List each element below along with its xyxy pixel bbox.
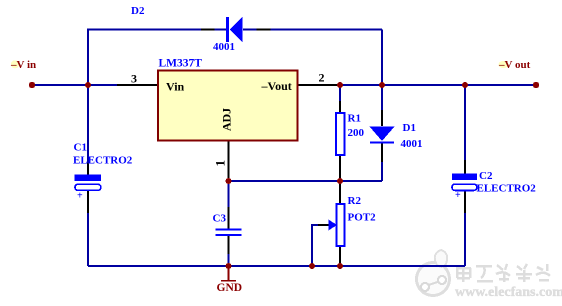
svg-text:POT2: POT2 [348, 212, 377, 224]
wire C2 branch [464, 85, 466, 266]
watermark chinese text strokes [456, 264, 550, 282]
wire left vertical [87, 29, 89, 164]
junction at R2 bottom [337, 263, 343, 269]
svg-text:1: 1 [212, 160, 227, 167]
svg-text:R1: R1 [348, 113, 361, 125]
svg-text:GND: GND [217, 282, 243, 294]
ground [217, 266, 243, 294]
svg-text:C2: C2 [479, 170, 493, 182]
node -V out [498, 59, 531, 71]
svg-text:+: + [455, 190, 461, 201]
svg-text:–Vout: –Vout [261, 79, 292, 93]
capacitor C3 [216, 230, 242, 235]
wire main rail [33, 84, 533, 86]
svg-text:2: 2 [319, 71, 325, 85]
pin R1 bottom [339, 155, 341, 181]
capacitor C1 [75, 175, 102, 202]
wire R1 top [339, 85, 341, 113]
op-amp U1 LM337T body [158, 71, 298, 141]
svg-text:Vin: Vin [166, 80, 185, 94]
svg-text:3: 3 [131, 72, 137, 86]
svg-text:D1: D1 [403, 122, 416, 134]
watermark logo [417, 250, 450, 296]
svg-text:4001: 4001 [401, 138, 423, 150]
wire R2 wiper [312, 225, 329, 266]
wire C1 branch [87, 163, 89, 266]
junction at Vin rail left vertical [85, 82, 91, 88]
svg-text:ELECTRO2: ELECTRO2 [477, 183, 537, 195]
pin R2 bottom [339, 246, 341, 265]
svg-text:–V out: –V out [498, 59, 531, 71]
svg-text:200: 200 [348, 127, 365, 139]
pin 2 stub [298, 84, 341, 86]
wire bottom rail [88, 265, 465, 267]
svg-text:+: + [77, 191, 83, 202]
wire C3 branch [228, 181, 230, 266]
capacitor C2 [452, 174, 477, 202]
pin 1 ADJ stub [228, 140, 230, 181]
wire D1 branch [381, 85, 383, 181]
junction at R1 bottom / R2 top [337, 178, 343, 184]
wire top rail [88, 30, 382, 86]
node endpoint -V out [533, 82, 539, 88]
svg-text:C3: C3 [213, 213, 227, 225]
diode D1 [370, 127, 395, 144]
svg-text:D2: D2 [131, 5, 145, 17]
svg-text:4001: 4001 [213, 41, 235, 53]
pin R2 top [339, 181, 341, 204]
resistor R1 [336, 113, 345, 155]
junction at D1 top [379, 82, 385, 88]
junction at C2 top [462, 82, 468, 88]
junction at GND node [226, 263, 232, 269]
svg-text:ADJ: ADJ [220, 108, 234, 131]
junction at ADJ node [226, 178, 232, 184]
svg-text:LM337T: LM337T [159, 58, 203, 70]
junction at wiper bottom [309, 263, 315, 269]
svg-text:–V in: –V in [10, 59, 36, 71]
node endpoint -V in [29, 82, 35, 88]
svg-text:C1: C1 [74, 142, 87, 154]
wire adj rail [229, 180, 383, 182]
svg-text:R2: R2 [348, 195, 362, 207]
junction at R1 top [337, 82, 343, 88]
pin 3 stub [117, 84, 158, 86]
potentiometer R2 [329, 204, 345, 246]
node -V in [10, 59, 36, 71]
svg-text:ELECTRO2: ELECTRO2 [73, 155, 133, 167]
diode D2 [226, 17, 243, 42]
svg-text:www.elecfans.com: www.elecfans.com [455, 285, 562, 300]
